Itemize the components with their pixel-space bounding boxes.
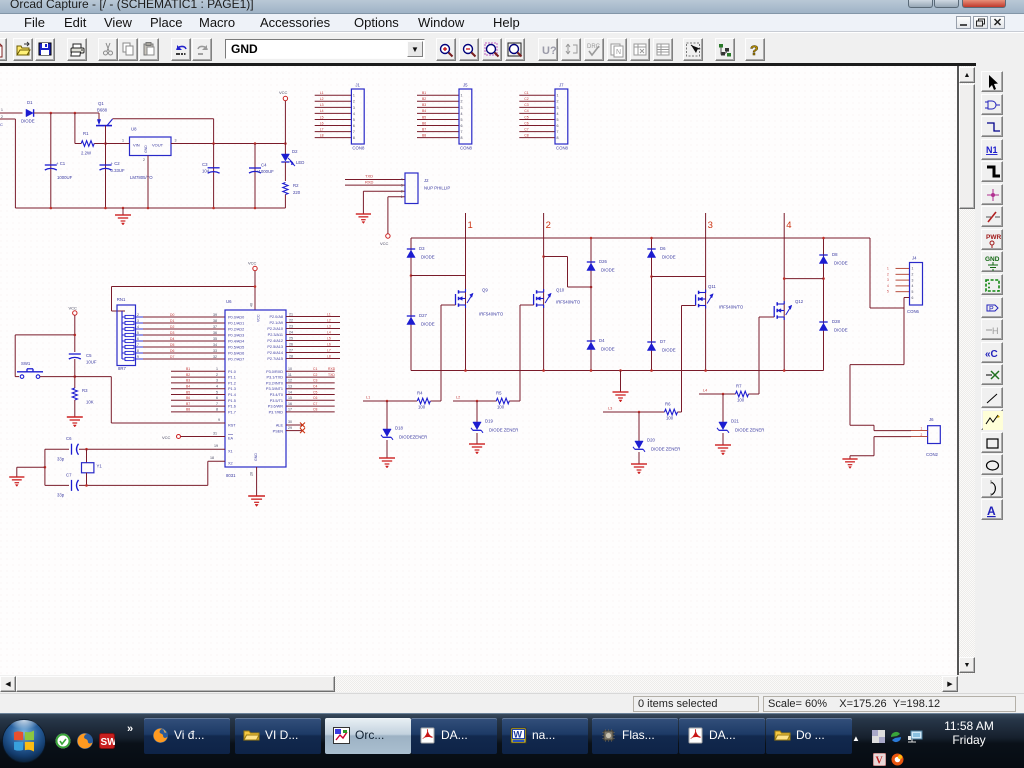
svg-text:CON8: CON8 xyxy=(460,146,473,151)
junction xyxy=(590,286,593,289)
svg-text:W: W xyxy=(514,730,523,740)
svg-text:2: 2 xyxy=(912,273,914,277)
svg-text:L2: L2 xyxy=(320,97,324,101)
wire xyxy=(651,238,653,371)
svg-text:16: 16 xyxy=(288,402,292,406)
wire xyxy=(476,401,478,422)
wire xyxy=(74,400,76,417)
svg-text:J5: J5 xyxy=(463,83,468,88)
svg-text:B8: B8 xyxy=(422,133,426,137)
svg-text:L5: L5 xyxy=(320,115,324,119)
svg-text:C7: C7 xyxy=(313,402,317,406)
svg-text:X1: X1 xyxy=(228,450,233,454)
wire TXD xyxy=(345,174,405,180)
wire gate Q11 xyxy=(682,306,696,413)
IC U6 8031 microcontroller xyxy=(225,299,286,478)
svg-text:DIODE: DIODE xyxy=(662,348,676,353)
svg-text:«C: «C xyxy=(985,349,998,360)
svg-text:4: 4 xyxy=(887,284,889,288)
svg-text:IRF540N/TO: IRF540N/TO xyxy=(479,312,504,317)
svg-text:19: 19 xyxy=(214,444,218,448)
svg-text:J6: J6 xyxy=(929,417,934,422)
svg-text:P3.0/RXD: P3.0/RXD xyxy=(266,370,283,374)
svg-text:35: 35 xyxy=(213,337,217,341)
svg-text:2: 2 xyxy=(353,100,355,104)
svg-text:U?: U? xyxy=(542,45,557,57)
junction xyxy=(74,112,77,115)
junction xyxy=(50,112,53,115)
wire xyxy=(50,113,52,208)
wire xyxy=(509,400,520,402)
wire xyxy=(105,126,107,208)
svg-text:2: 2 xyxy=(137,313,139,317)
svg-text:SW: SW xyxy=(101,737,116,748)
svg-text:10K: 10K xyxy=(86,400,94,405)
svg-text:5: 5 xyxy=(461,118,463,122)
svg-text:+1000UF: +1000UF xyxy=(256,169,274,174)
svg-text:P3.1/TXD: P3.1/TXD xyxy=(267,376,284,380)
svg-text:2: 2 xyxy=(216,373,218,377)
wire xyxy=(136,313,144,359)
svg-text:A: A xyxy=(987,504,996,518)
svg-text:3: 3 xyxy=(175,139,177,143)
svg-text:3: 3 xyxy=(353,106,355,110)
svg-text:P3.4/T0: P3.4/T0 xyxy=(270,393,283,397)
svg-text:1: 1 xyxy=(401,195,403,199)
transistor Q12 xyxy=(774,299,804,320)
svg-text:D6: D6 xyxy=(660,246,666,251)
svg-text:5: 5 xyxy=(557,118,559,122)
svg-text:2: 2 xyxy=(461,100,463,104)
svg-text:D0: D0 xyxy=(170,313,174,317)
wire gate Q12 xyxy=(759,317,774,394)
wire X2 xyxy=(45,456,225,485)
junction xyxy=(704,369,707,372)
svg-text:6: 6 xyxy=(912,296,914,300)
transistor Q1 xyxy=(96,101,113,126)
svg-text:37: 37 xyxy=(213,325,217,329)
wire xyxy=(638,452,640,464)
svg-text:DIODE: DIODE xyxy=(834,261,848,266)
svg-text:29: 29 xyxy=(288,426,292,430)
junction xyxy=(464,369,467,372)
svg-text:D4: D4 xyxy=(599,338,605,343)
wire xyxy=(34,112,99,114)
ground xyxy=(715,445,731,455)
crystal Y1 xyxy=(82,449,103,485)
ground xyxy=(67,417,83,427)
connector J1 CON8 xyxy=(320,83,365,151)
resistor R5 xyxy=(496,391,509,410)
svg-text:33: 33 xyxy=(213,349,217,353)
junction xyxy=(410,274,413,277)
svg-text:Q12: Q12 xyxy=(795,299,804,304)
svg-text:V: V xyxy=(876,756,884,767)
wire xyxy=(181,432,225,437)
svg-text:C8: C8 xyxy=(524,133,528,137)
junction xyxy=(386,400,389,403)
connector stub pins 1 and 2 at left edge xyxy=(0,108,23,127)
svg-text:D3: D3 xyxy=(419,246,425,251)
svg-text:2: 2 xyxy=(546,220,551,231)
wire xyxy=(74,315,76,352)
svg-text:D8: D8 xyxy=(832,252,838,257)
junction xyxy=(85,448,88,451)
svg-text:1: 1 xyxy=(1,108,3,112)
svg-text:VIN: VIN xyxy=(133,143,140,148)
svg-text:7: 7 xyxy=(461,130,463,134)
svg-text:DIODE ZENER: DIODE ZENER xyxy=(651,447,680,452)
svg-text:C2: C2 xyxy=(313,373,317,377)
svg-text:DIODE ZENER: DIODE ZENER xyxy=(735,428,764,433)
svg-text:CON6: CON6 xyxy=(907,309,920,314)
svg-text:14: 14 xyxy=(288,390,292,394)
wire xyxy=(519,95,555,137)
svg-text:GND: GND xyxy=(254,453,258,461)
svg-text:P2.4/A12: P2.4/A12 xyxy=(267,339,283,343)
svg-text:1000UF: 1000UF xyxy=(57,175,73,180)
junction xyxy=(476,400,479,403)
svg-text:28: 28 xyxy=(289,354,293,358)
svg-text:C4: C4 xyxy=(313,385,317,389)
svg-text:1: 1 xyxy=(461,94,463,98)
svg-text:8: 8 xyxy=(353,136,355,140)
svg-text:J1: J1 xyxy=(355,83,360,88)
wire xyxy=(544,257,591,288)
wire xyxy=(254,144,256,209)
junction xyxy=(783,369,786,372)
ground xyxy=(379,458,395,468)
junction xyxy=(104,142,107,145)
svg-text:C2: C2 xyxy=(524,97,528,101)
svg-text:C3: C3 xyxy=(202,162,208,167)
svg-text:L4: L4 xyxy=(703,389,707,393)
svg-text:4: 4 xyxy=(557,112,559,116)
svg-text:B688: B688 xyxy=(97,108,108,113)
svg-text:104: 104 xyxy=(202,169,210,174)
wire xyxy=(823,238,825,371)
svg-text:31: 31 xyxy=(213,432,217,436)
junction xyxy=(254,142,257,145)
wire xyxy=(386,440,388,458)
resistor R6 xyxy=(665,402,678,421)
svg-text:24: 24 xyxy=(289,330,293,334)
svg-text:5: 5 xyxy=(216,390,218,394)
svg-text:B6: B6 xyxy=(422,121,426,125)
svg-text:L3: L3 xyxy=(327,324,331,328)
svg-text:Q11: Q11 xyxy=(708,284,716,289)
wire xyxy=(14,119,16,208)
svg-text:VCC: VCC xyxy=(257,314,261,322)
junction xyxy=(638,411,641,414)
svg-text:X2: X2 xyxy=(228,462,233,466)
wire xyxy=(699,389,736,395)
svg-text:8: 8 xyxy=(137,349,139,353)
svg-text:Y1: Y1 xyxy=(97,464,103,469)
svg-text:L1: L1 xyxy=(366,396,370,400)
svg-text:DIODE: DIODE xyxy=(601,268,615,273)
svg-text:220: 220 xyxy=(293,190,301,195)
wire xyxy=(722,394,724,422)
wire xyxy=(112,271,256,311)
svg-text:P0.6/AD6: P0.6/AD6 xyxy=(228,352,244,356)
svg-text:D6: D6 xyxy=(170,349,174,353)
svg-text:L6: L6 xyxy=(320,121,324,125)
wire P0 bus xyxy=(143,313,225,359)
diode D4 xyxy=(587,338,615,352)
svg-text:R4: R4 xyxy=(417,391,423,396)
wire xyxy=(431,400,442,402)
svg-text:5: 5 xyxy=(912,290,914,294)
switch SW1 xyxy=(17,361,43,378)
zener diode D18 xyxy=(381,426,427,440)
junction xyxy=(254,207,257,210)
svg-text:D18: D18 xyxy=(395,426,403,431)
svg-text:8: 8 xyxy=(461,136,463,140)
svg-text:J7: J7 xyxy=(559,83,564,88)
svg-text:P0.5/AD5: P0.5/AD5 xyxy=(228,346,244,350)
wire xyxy=(106,143,130,145)
wire P3 stubs xyxy=(286,367,336,412)
wire gate Q10 xyxy=(520,305,534,401)
svg-text:1: 1 xyxy=(353,94,355,98)
wire J4 pin stubs xyxy=(887,266,910,293)
svg-text:D27: D27 xyxy=(419,313,427,318)
svg-text:L8: L8 xyxy=(327,354,331,358)
svg-text:DIODE: DIODE xyxy=(601,347,615,352)
svg-text:VCC: VCC xyxy=(69,306,78,311)
svg-text:D3: D3 xyxy=(170,331,174,335)
junction xyxy=(147,207,150,210)
svg-text:39: 39 xyxy=(213,313,217,317)
svg-text:3: 3 xyxy=(216,379,218,383)
wire xyxy=(363,396,417,402)
svg-text:D19: D19 xyxy=(485,419,493,424)
connector J6 CON2 xyxy=(911,417,940,457)
svg-text:D7: D7 xyxy=(170,355,174,359)
svg-text:CON2: CON2 xyxy=(926,452,939,457)
svg-text:32: 32 xyxy=(213,355,217,359)
wire xyxy=(784,278,823,280)
svg-text:IRF540N/TO: IRF540N/TO xyxy=(556,300,581,305)
wire xyxy=(678,411,682,413)
svg-text:B2: B2 xyxy=(186,373,190,377)
wire xyxy=(417,95,459,137)
no-connect ALE pin 30 xyxy=(286,420,305,428)
net 2 xyxy=(544,213,551,371)
svg-text:B7: B7 xyxy=(422,127,426,131)
svg-text:+ C1: + C1 xyxy=(56,161,66,166)
svg-text:100: 100 xyxy=(737,398,745,403)
svg-text:C6: C6 xyxy=(313,396,317,400)
svg-text:D7: D7 xyxy=(660,339,666,344)
svg-text:DIODE: DIODE xyxy=(834,328,848,333)
svg-text:TXD: TXD xyxy=(328,373,335,377)
capacitor C5 xyxy=(69,353,97,365)
junction xyxy=(590,237,593,240)
capacitor C3 xyxy=(202,162,220,174)
capacitor C7 xyxy=(57,473,79,498)
svg-text:3: 3 xyxy=(708,220,713,231)
svg-text:P3.2/INT0: P3.2/INT0 xyxy=(266,381,283,385)
svg-text:P2.5/A13: P2.5/A13 xyxy=(267,345,283,349)
svg-text:P2.3/A11: P2.3/A11 xyxy=(268,333,283,337)
svg-text:R3: R3 xyxy=(82,388,88,393)
svg-text:1: 1 xyxy=(921,427,923,431)
junction xyxy=(650,369,653,372)
wire xyxy=(315,95,352,137)
svg-text:P3.7/RD: P3.7/RD xyxy=(269,410,284,414)
svg-text:L3: L3 xyxy=(320,103,324,107)
net 4 xyxy=(784,213,791,371)
svg-text:6: 6 xyxy=(137,337,139,341)
svg-text:18: 18 xyxy=(210,456,214,460)
svg-text:1: 1 xyxy=(468,220,473,231)
wire xyxy=(388,197,405,234)
svg-text:12: 12 xyxy=(288,379,292,383)
svg-text:3: 3 xyxy=(461,106,463,110)
svg-text:P1.3: P1.3 xyxy=(228,387,236,391)
voltage regulator U8 xyxy=(122,127,177,181)
resistor R4 xyxy=(417,391,430,410)
svg-text:4: 4 xyxy=(786,220,791,231)
diode D27 xyxy=(407,313,435,327)
resistor R2 xyxy=(283,183,301,196)
transistor Q10 xyxy=(534,288,581,309)
wire xyxy=(17,467,45,477)
svg-text:P1.6: P1.6 xyxy=(228,405,236,409)
svg-text:8: 8 xyxy=(216,408,218,412)
svg-text:J2: J2 xyxy=(424,178,429,183)
svg-text:C3: C3 xyxy=(313,379,317,383)
svg-text:C1: C1 xyxy=(524,91,528,95)
svg-text:9: 9 xyxy=(218,418,220,422)
svg-text:N1: N1 xyxy=(986,145,998,155)
svg-text:P2.7/A15: P2.7/A15 xyxy=(267,357,283,361)
resistor network RN1 xyxy=(117,297,136,371)
diode D1 xyxy=(21,100,35,124)
svg-text:C1: C1 xyxy=(313,367,317,371)
zener diode D20 xyxy=(633,438,680,452)
svg-text:20: 20 xyxy=(250,472,254,476)
diode D6 xyxy=(647,246,675,260)
svg-text:Q10: Q10 xyxy=(556,288,565,293)
wire xyxy=(75,143,106,145)
svg-text:1: 1 xyxy=(912,267,914,271)
svg-text:D20: D20 xyxy=(647,438,655,443)
svg-text:PSEN: PSEN xyxy=(273,430,284,434)
svg-text:R1: R1 xyxy=(83,131,89,136)
svg-text:CON8: CON8 xyxy=(556,146,569,151)
ground xyxy=(356,214,371,224)
capacitor C6 xyxy=(57,436,79,462)
svg-text:5: 5 xyxy=(887,290,889,294)
net 1 xyxy=(466,213,473,371)
svg-text:VCC: VCC xyxy=(248,261,257,266)
svg-text:P2.2/A10: P2.2/A10 xyxy=(267,327,283,331)
svg-text:7: 7 xyxy=(216,402,218,406)
transistor Q9 xyxy=(456,288,504,317)
svg-text:L1: L1 xyxy=(327,312,331,316)
svg-text:38: 38 xyxy=(213,319,217,323)
junction xyxy=(212,142,215,145)
svg-text:DIODE ZENER: DIODE ZENER xyxy=(489,428,518,433)
svg-text:VCC: VCC xyxy=(162,435,171,440)
svg-text:27: 27 xyxy=(289,348,293,352)
wire xyxy=(284,195,286,209)
svg-text:6: 6 xyxy=(461,124,463,128)
wire xyxy=(74,359,76,388)
svg-text:2: 2 xyxy=(143,158,145,162)
wire xyxy=(411,275,466,277)
svg-text:U6: U6 xyxy=(226,299,232,304)
svg-text:1: 1 xyxy=(122,139,124,143)
svg-text:PWR: PWR xyxy=(986,234,1001,241)
svg-text:8031: 8031 xyxy=(226,473,236,478)
svg-text:1: 1 xyxy=(557,94,559,98)
wire xyxy=(652,276,706,278)
svg-text:C7: C7 xyxy=(66,473,72,478)
svg-text:P0.4/AD4: P0.4/AD4 xyxy=(228,340,244,344)
svg-text:B5: B5 xyxy=(422,115,426,119)
wire xyxy=(113,119,214,144)
svg-text:P2.1/A9: P2.1/A9 xyxy=(269,321,283,325)
svg-text:2: 2 xyxy=(1,115,3,119)
svg-text:P: P xyxy=(989,306,994,313)
svg-text:D5: D5 xyxy=(170,343,174,347)
svg-text:C4: C4 xyxy=(524,109,528,113)
svg-text:3: 3 xyxy=(401,183,403,187)
svg-text:C8: C8 xyxy=(313,408,317,412)
transistor Q11 xyxy=(696,284,744,310)
svg-text:30: 30 xyxy=(288,420,292,424)
wire xyxy=(15,335,75,377)
svg-text:D28: D28 xyxy=(832,319,840,324)
svg-text:LED: LED xyxy=(296,160,304,165)
svg-text:SW1: SW1 xyxy=(21,361,31,366)
connector J5 CON8 xyxy=(422,83,473,151)
svg-text:R2: R2 xyxy=(293,183,299,188)
wire xyxy=(256,467,258,496)
svg-text:D4: D4 xyxy=(170,337,174,341)
wire P2 stubs xyxy=(286,312,340,358)
wire RXD xyxy=(345,179,405,185)
wire xyxy=(363,191,405,214)
svg-text:D2: D2 xyxy=(170,325,174,329)
wire xyxy=(749,393,760,395)
svg-text:P3.5/T1: P3.5/T1 xyxy=(270,399,283,403)
svg-text:L4: L4 xyxy=(320,109,324,113)
ground xyxy=(248,496,265,507)
svg-text:Q1: Q1 xyxy=(98,101,104,106)
svg-text:23: 23 xyxy=(289,324,293,328)
svg-text:22: 22 xyxy=(289,318,293,322)
capacitor C1 xyxy=(45,161,73,180)
svg-text:DIODE: DIODE xyxy=(662,255,676,260)
wire xyxy=(284,162,286,181)
diode D8 xyxy=(819,252,847,266)
svg-text:7: 7 xyxy=(353,130,355,134)
svg-text:3: 3 xyxy=(912,278,914,282)
svg-text:4: 4 xyxy=(912,284,914,288)
svg-text:P2.6/A14: P2.6/A14 xyxy=(267,351,283,355)
power VCC xyxy=(162,435,181,441)
svg-text:B1: B1 xyxy=(186,367,190,371)
svg-text:C3: C3 xyxy=(524,103,528,107)
wire xyxy=(850,437,911,459)
svg-text:TXD: TXD xyxy=(365,174,373,179)
svg-text:6: 6 xyxy=(353,124,355,128)
